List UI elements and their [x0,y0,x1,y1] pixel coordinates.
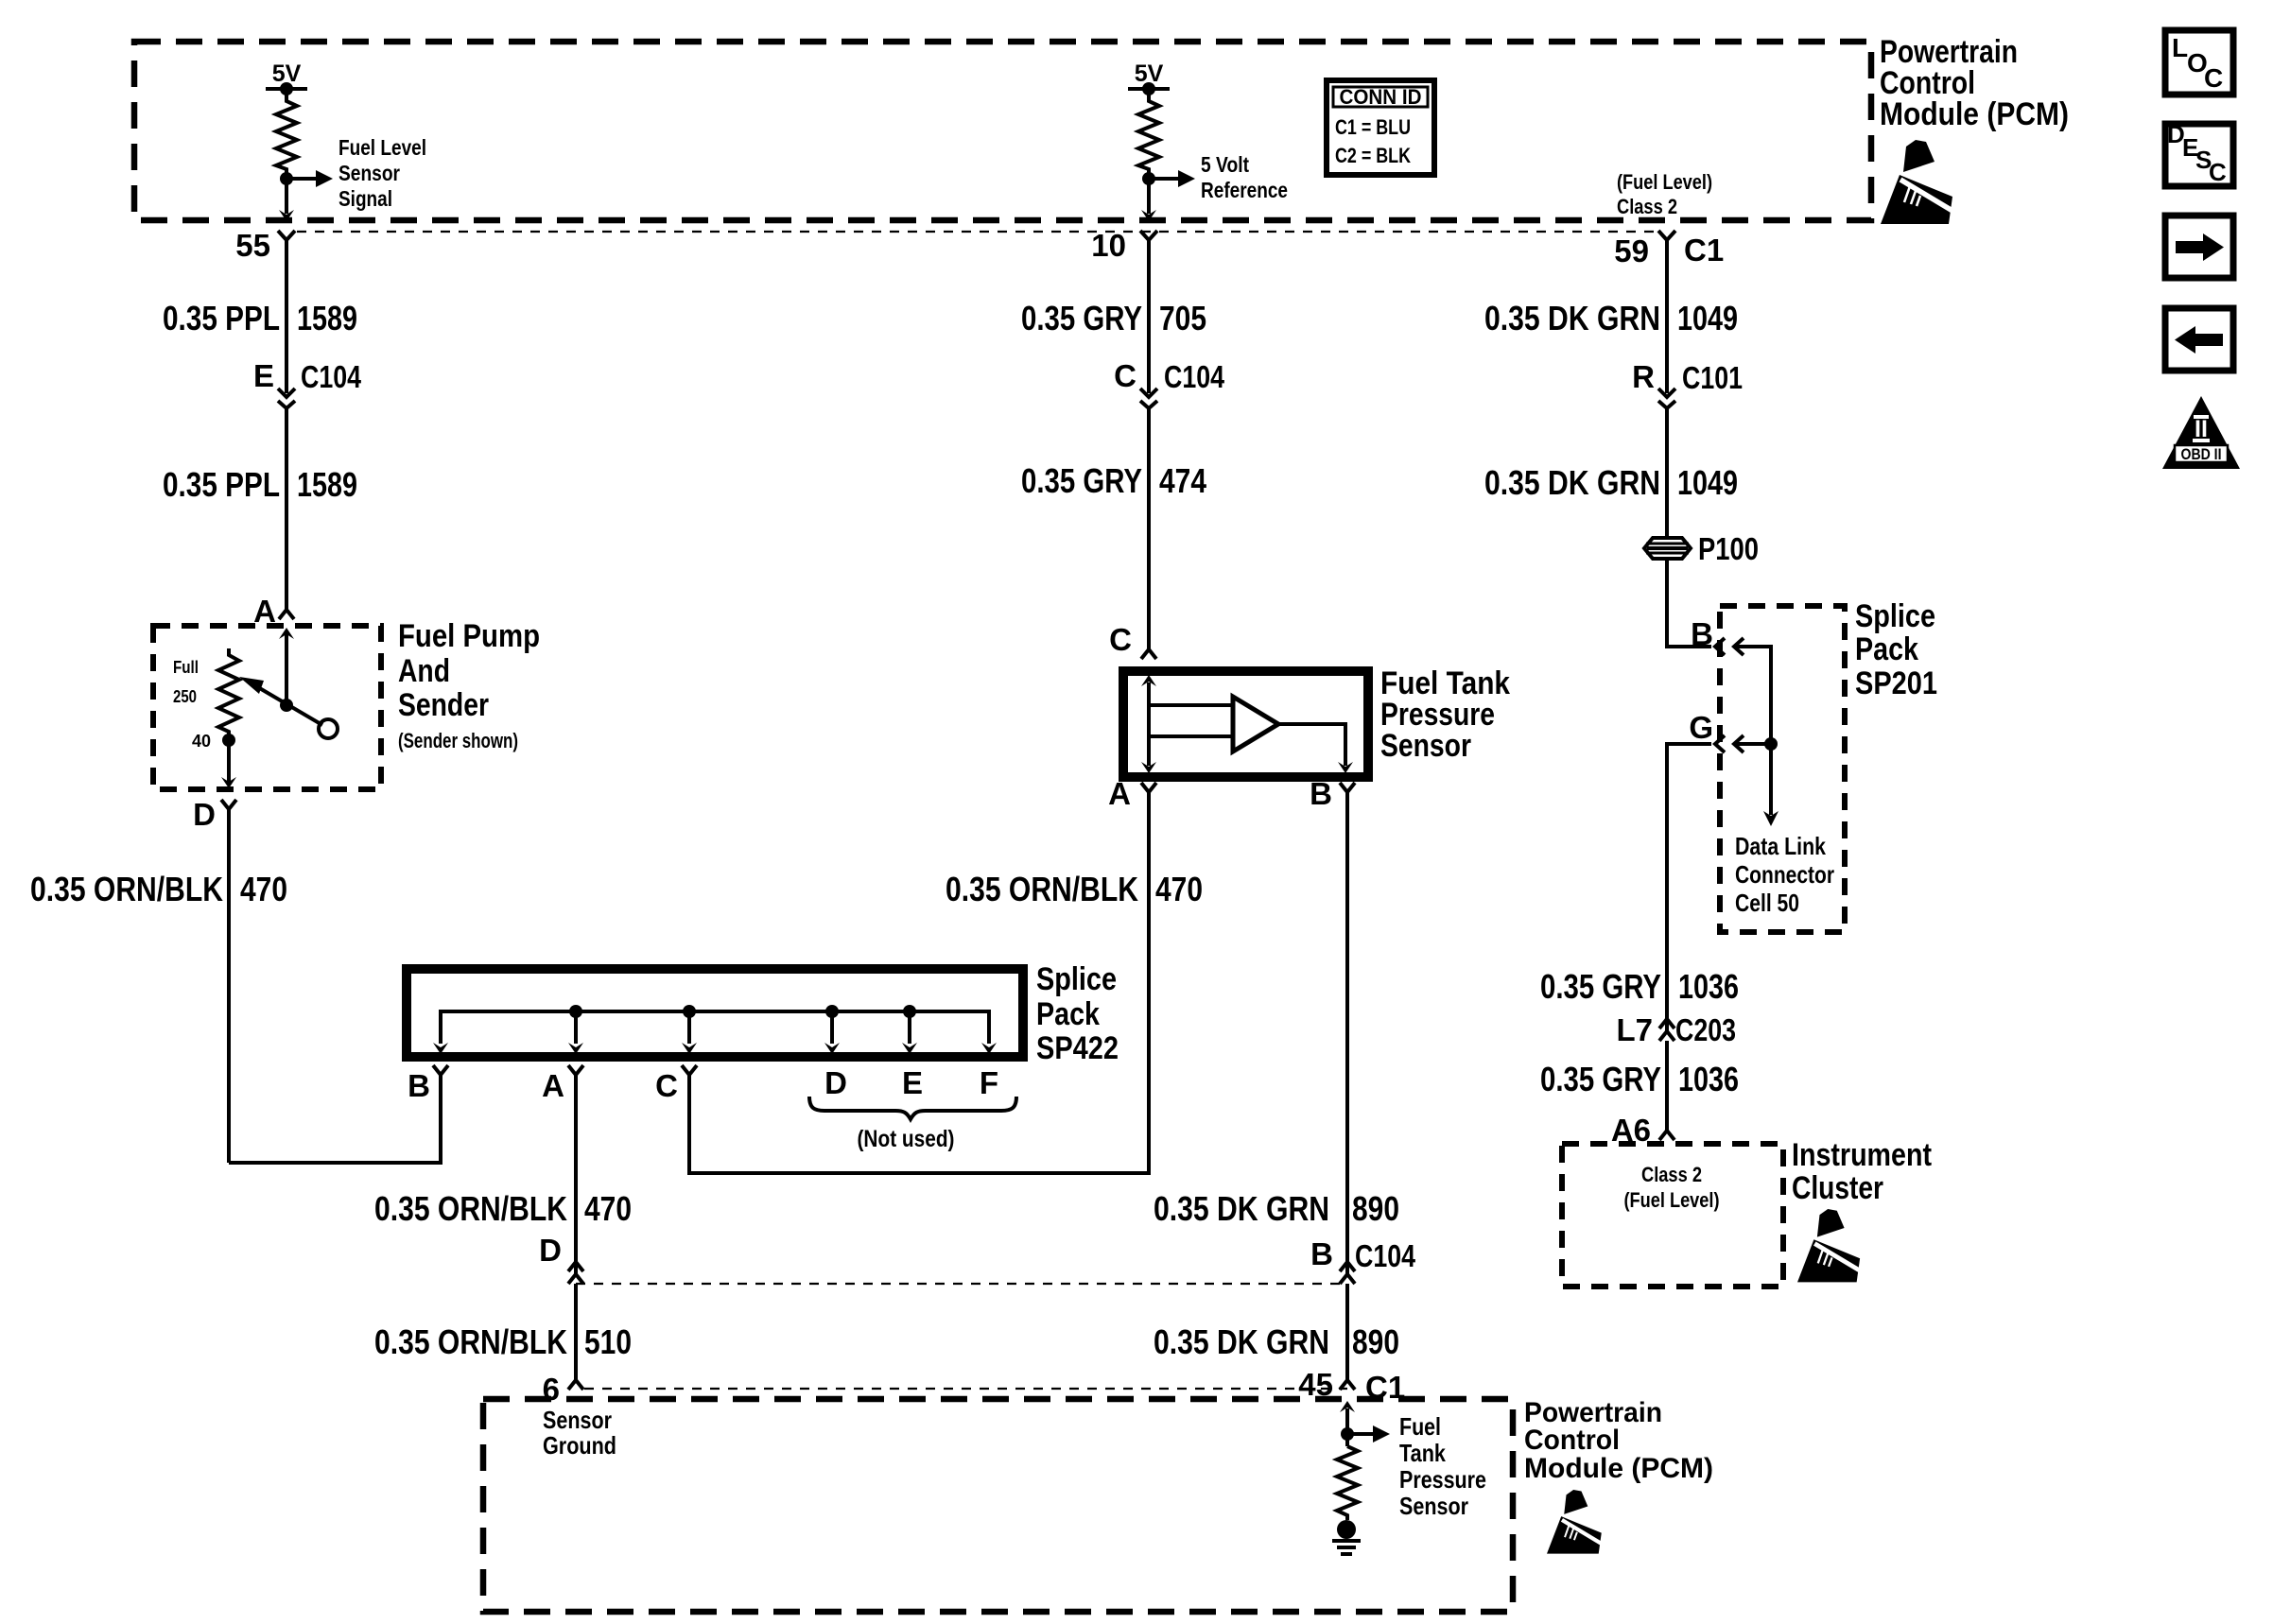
svg-text:C104: C104 [1355,1238,1416,1273]
right arrow icon [2165,216,2233,278]
svg-text:705: 705 [1159,299,1206,337]
svg-text:C101: C101 [1682,360,1743,395]
svg-text:250: 250 [173,687,197,706]
Powertrain Control Module (PCM) top box [134,42,1871,220]
wire 0.35 GRY 705 (pin 10 to C104) [1147,257,1151,393]
svg-text:0.35 PPL: 0.35 PPL [163,299,280,337]
PCM label (bottom right) [1524,1397,1713,1484]
sensor internal circuit [1141,675,1231,773]
svg-text:G: G [1689,710,1713,745]
internal arrows down to edge [433,1043,448,1054]
svg-text:A: A [1108,776,1131,811]
arrow to 5 Volt Reference label [1149,170,1195,187]
left arrow icon [2165,308,2233,371]
CONN ID legend box [1327,80,1434,175]
Splice Pack SP422 box [407,969,1023,1057]
wire horizontal to SP422 B [229,1091,441,1163]
svg-text:5 Volt: 5 Volt [1201,152,1249,177]
thin dashed connector face line (bottom PCM) [584,1388,1347,1390]
svg-text:B: B [1310,1236,1333,1271]
terminal G (SP201) [1689,710,1744,752]
svg-text:470: 470 [584,1189,632,1228]
svg-text:Fuel Pump: Fuel Pump [398,618,540,654]
wire 0.35 DK GRN 890 (sensor B down) [1345,807,1349,1264]
svg-text:B: B [1691,616,1713,651]
pin 45 terminal / C1 [1298,1367,1405,1405]
SP201 internal bus [1736,647,1778,826]
svg-text:C2 = BLK: C2 = BLK [1335,144,1411,167]
svg-text:B: B [408,1068,430,1103]
bus junction dots [569,1005,582,1018]
svg-text:C1: C1 [1684,233,1724,268]
svg-text:F: F [980,1065,998,1100]
svg-text:D: D [824,1065,847,1100]
svg-text:Cell 50: Cell 50 [1735,889,1799,917]
Fuel Pump And Sender box [153,626,381,789]
svg-text:1589: 1589 [297,299,357,337]
sender resistor (Full 250 / 40) [218,648,239,735]
junction dot 40 ohm tap [222,734,235,747]
svg-text:Sensor: Sensor [338,161,400,185]
svg-text:Control: Control [1524,1425,1620,1456]
connector R C101 [1632,359,1743,422]
(Fuel Level) Class 2 annotation [1617,170,1712,218]
svg-text:Ground: Ground [543,1431,616,1460]
svg-text:Pack: Pack [1036,996,1100,1032]
svg-text:(Sender shown): (Sender shown) [398,729,518,752]
5 Volt Reference text [1201,152,1288,202]
svg-text:1049: 1049 [1677,299,1738,337]
wire 0.35 ORN/BLK 510 [574,1297,578,1380]
terminal A6 (instrument cluster) [1611,1113,1674,1148]
connector B C104 (mid right) [1310,1236,1415,1297]
svg-text:(Fuel Level): (Fuel Level) [1617,170,1712,194]
svg-text:Pressure: Pressure [1399,1465,1486,1494]
svg-text:Connector: Connector [1735,860,1834,889]
svg-text:474: 474 [1159,461,1206,500]
svg-text:0.35 DK GRN: 0.35 DK GRN [1484,463,1660,502]
ESD symbol (bottom PCM) [1547,1490,1605,1554]
svg-text:0.35 ORN/BLK: 0.35 ORN/BLK [374,1322,567,1361]
svg-text:D: D [539,1233,562,1268]
PCM label (top right) [1880,34,2069,132]
junction dot (fuel tank pressure signal tap) [1341,1427,1354,1441]
svg-text:Reference: Reference [1201,178,1288,202]
Fuel Tank Pressure Sensor annotation text [1399,1412,1486,1520]
svg-text:P100: P100 [1698,531,1759,566]
wire 0.35 GRY 474 [1147,422,1151,649]
svg-text:Splice: Splice [1855,598,1935,634]
svg-text:Full: Full [173,658,199,677]
svg-text:Module (PCM): Module (PCM) [1880,96,2069,132]
wire from SP422 A down (0.35 ORN/BLK 470) [574,1092,578,1265]
svg-text:Class 2: Class 2 [1641,1163,1702,1186]
ESD symbol (top PCM) [1881,140,1957,224]
5V supply symbol (middle, 5 volt reference) [1128,60,1170,95]
svg-text:55: 55 [235,228,270,263]
svg-text:0.35 PPL: 0.35 PPL [163,465,280,504]
terminal A (SP422) [542,1065,583,1103]
Instrument Cluster label [1792,1137,1932,1206]
junction (fuel level signal tap) [280,172,293,185]
wire (inside PCM down to pin 55) [285,179,288,214]
svg-text:470: 470 [1155,870,1203,908]
svg-text:0.35 ORN/BLK: 0.35 ORN/BLK [374,1189,567,1228]
svg-text:Cluster: Cluster [1792,1170,1883,1206]
svg-text:Signal: Signal [338,186,392,211]
pin 55 terminal [235,228,295,263]
Splice Pack SP422 label [1036,961,1119,1066]
terminal C (SP422) [655,1065,697,1103]
op-amp U1 [1233,697,1278,752]
Splice Pack SP201 label [1855,598,1937,701]
svg-text:Data Link: Data Link [1735,832,1826,860]
svg-text:R: R [1632,359,1655,394]
svg-text:Fuel: Fuel [1399,1412,1441,1441]
connector E C104 [253,358,362,422]
svg-text:1036: 1036 [1678,967,1739,1006]
Fuel Tank Pressure Sensor label [1380,665,1510,764]
svg-text:0.35 ORN/BLK: 0.35 ORN/BLK [946,870,1138,908]
svg-text:Tank: Tank [1399,1439,1446,1467]
connector C C104 [1114,358,1224,422]
svg-text:Sensor: Sensor [1380,728,1471,764]
svg-text:(Not used): (Not used) [858,1126,955,1152]
sensor output wire to B [1278,724,1353,773]
grommet P100 [1644,531,1759,566]
Powertrain Control Module (PCM) bottom box [483,1399,1513,1612]
wiper arm with arrowhead and pivot circle [239,677,338,738]
arrow to Fuel Level Sensor Signal label [286,170,333,187]
thin dashed connector face line (PCM C1/C2) [297,231,1658,233]
ground symbol [1332,1520,1361,1554]
svg-text:L7: L7 [1616,1012,1653,1047]
terminal A (pressure sensor) [1108,776,1156,811]
svg-text:L: L [2172,33,2188,62]
terminal D (fuel pump) [193,797,236,832]
svg-text:1036: 1036 [1678,1060,1739,1098]
wire 0.35 ORN/BLK 470 (fuel pump D down) [227,826,231,1163]
svg-text:0.35 GRY: 0.35 GRY [1021,461,1142,500]
svg-text:E: E [253,358,274,393]
terminal B (SP201) [1691,616,1744,655]
svg-text:CONN ID: CONN ID [1340,85,1422,109]
internal arrow up at A [279,628,294,705]
svg-text:C104: C104 [301,359,362,394]
terminal C (pressure sensor) [1109,622,1156,659]
svg-text:Sensor: Sensor [543,1406,612,1434]
svg-text:40: 40 [192,732,211,751]
svg-text:OBD II: OBD II [2181,445,2222,463]
svg-text:C: C [655,1068,678,1103]
svg-text:0.35 DK GRN: 0.35 DK GRN [1154,1322,1329,1361]
Instrument Cluster box [1562,1144,1783,1287]
pin 59 terminal / C1 [1614,231,1724,268]
resistor (PCM internal, 5V reference) [1138,89,1159,173]
svg-text:A: A [542,1068,564,1103]
internal wire at 45 with arrow up [1340,1401,1355,1446]
svg-text:Splice: Splice [1036,961,1117,997]
svg-text:Instrument: Instrument [1792,1137,1932,1173]
svg-text:0.35 GRY: 0.35 GRY [1540,1060,1661,1098]
wire 0.35 PPL 1589 (C104 to fuel pump A) [285,422,288,607]
svg-text:C: C [2204,63,2223,93]
svg-text:E: E [902,1065,923,1100]
svg-text:II: II [2195,416,2208,442]
svg-text:470: 470 [240,870,287,908]
svg-text:Sensor: Sensor [1399,1492,1468,1520]
svg-text:0.35 GRY: 0.35 GRY [1021,299,1142,337]
5V supply symbol (left, fuel level) [266,60,307,95]
terminal A (fuel pump) [253,594,294,629]
pin 6 terminal (sensor ground) [543,1372,583,1407]
junction (5 volt reference tap) [1142,172,1155,185]
brace (Not used) [809,1097,1016,1152]
wire 0.35 DK GRN 890 (C104 to PCM 45) [1345,1297,1349,1380]
wire (inside PCM down to pin 10) [1147,179,1151,214]
svg-text:0.35 DK GRN: 0.35 DK GRN [1484,299,1660,337]
ESD symbol (instrument cluster) [1797,1209,1864,1282]
svg-text:C104: C104 [1164,359,1225,394]
thin dashed connector face line C104 [576,1283,1347,1285]
DESC icon [2165,120,2233,186]
svg-text:Module (PCM): Module (PCM) [1524,1453,1713,1484]
wire label 0.35 ORN/BLK 470 (sensor A wire) [946,870,1203,908]
svg-text:0.35 DK GRN: 0.35 DK GRN [1154,1189,1329,1228]
svg-text:510: 510 [584,1322,632,1361]
svg-text:C203: C203 [1675,1012,1736,1047]
svg-text:D: D [193,797,216,832]
svg-text:890: 890 [1352,1322,1399,1361]
svg-text:Fuel Level: Fuel Level [338,135,426,160]
svg-text:10: 10 [1091,228,1126,263]
svg-text:1049: 1049 [1677,463,1738,502]
svg-text:59: 59 [1614,233,1649,268]
terminal B (pressure sensor) [1310,776,1355,811]
svg-text:SP422: SP422 [1036,1030,1119,1066]
wire 0.35 DK GRN 1049 (pin 59 to C101) [1665,257,1669,393]
svg-text:SP201: SP201 [1855,665,1937,701]
resistor (PCM internal, FTP pull) [1337,1446,1358,1520]
svg-text:Pack: Pack [1855,631,1918,667]
connector D C104 (mid) [539,1233,583,1297]
svg-text:B: B [1310,776,1332,811]
svg-text:C1 = BLU: C1 = BLU [1335,115,1411,139]
wire G left and down (0.35 GRY 1036) [1667,744,1711,1019]
terminal B (SP422) [408,1065,448,1103]
wire from 40 tap to box edge [221,740,236,788]
wiper junction dot on signal wire [280,699,293,712]
svg-text:Class 2: Class 2 [1617,195,1677,218]
Fuel Pump And Sender label [398,618,540,752]
Full 250 40 labels [173,658,211,751]
wire 0.35 GRY 1036 (C203 to cluster A6) [1665,1054,1669,1128]
wire 0.35 PPL 1589 (55 to C104) [285,257,288,393]
svg-text:890: 890 [1352,1189,1399,1228]
Splice Pack SP201 box [1720,606,1845,932]
pin 10 terminal [1091,228,1157,263]
wire P100 down to SP201 B [1667,559,1711,647]
LOC icon [2165,30,2233,95]
Fuel Tank Pressure Sensor box [1123,671,1368,777]
resistor (PCM internal, fuel level pull-up) [276,89,297,173]
Fuel Level Sensor Signal text [338,135,426,211]
OBD II triangle icon [2162,396,2240,469]
svg-text:Sender: Sender [398,687,489,723]
svg-text:1589: 1589 [297,465,357,504]
SP422 internal bus [441,1011,989,1044]
arrow to Fuel Tank Pressure Sensor text [1347,1425,1390,1443]
Class 2 (Fuel Level) annotation [1624,1163,1720,1212]
svg-text:And: And [398,653,450,689]
svg-text:C: C [2209,158,2227,186]
svg-text:C: C [1109,622,1132,657]
Sensor Ground text [543,1406,616,1460]
svg-text:(Fuel Level): (Fuel Level) [1624,1188,1720,1212]
svg-text:0.35 ORN/BLK: 0.35 ORN/BLK [30,870,223,908]
svg-text:0.35 GRY: 0.35 GRY [1540,967,1661,1006]
wire from SP422 C down and right to sensor A [689,805,1149,1173]
connector L7 C203 [1616,1012,1736,1054]
Data Link Connector Cell 50 text [1735,832,1834,917]
svg-text:C: C [1114,358,1136,393]
wire 0.35 DK GRN 1049 (C101 to P100) [1665,422,1669,539]
